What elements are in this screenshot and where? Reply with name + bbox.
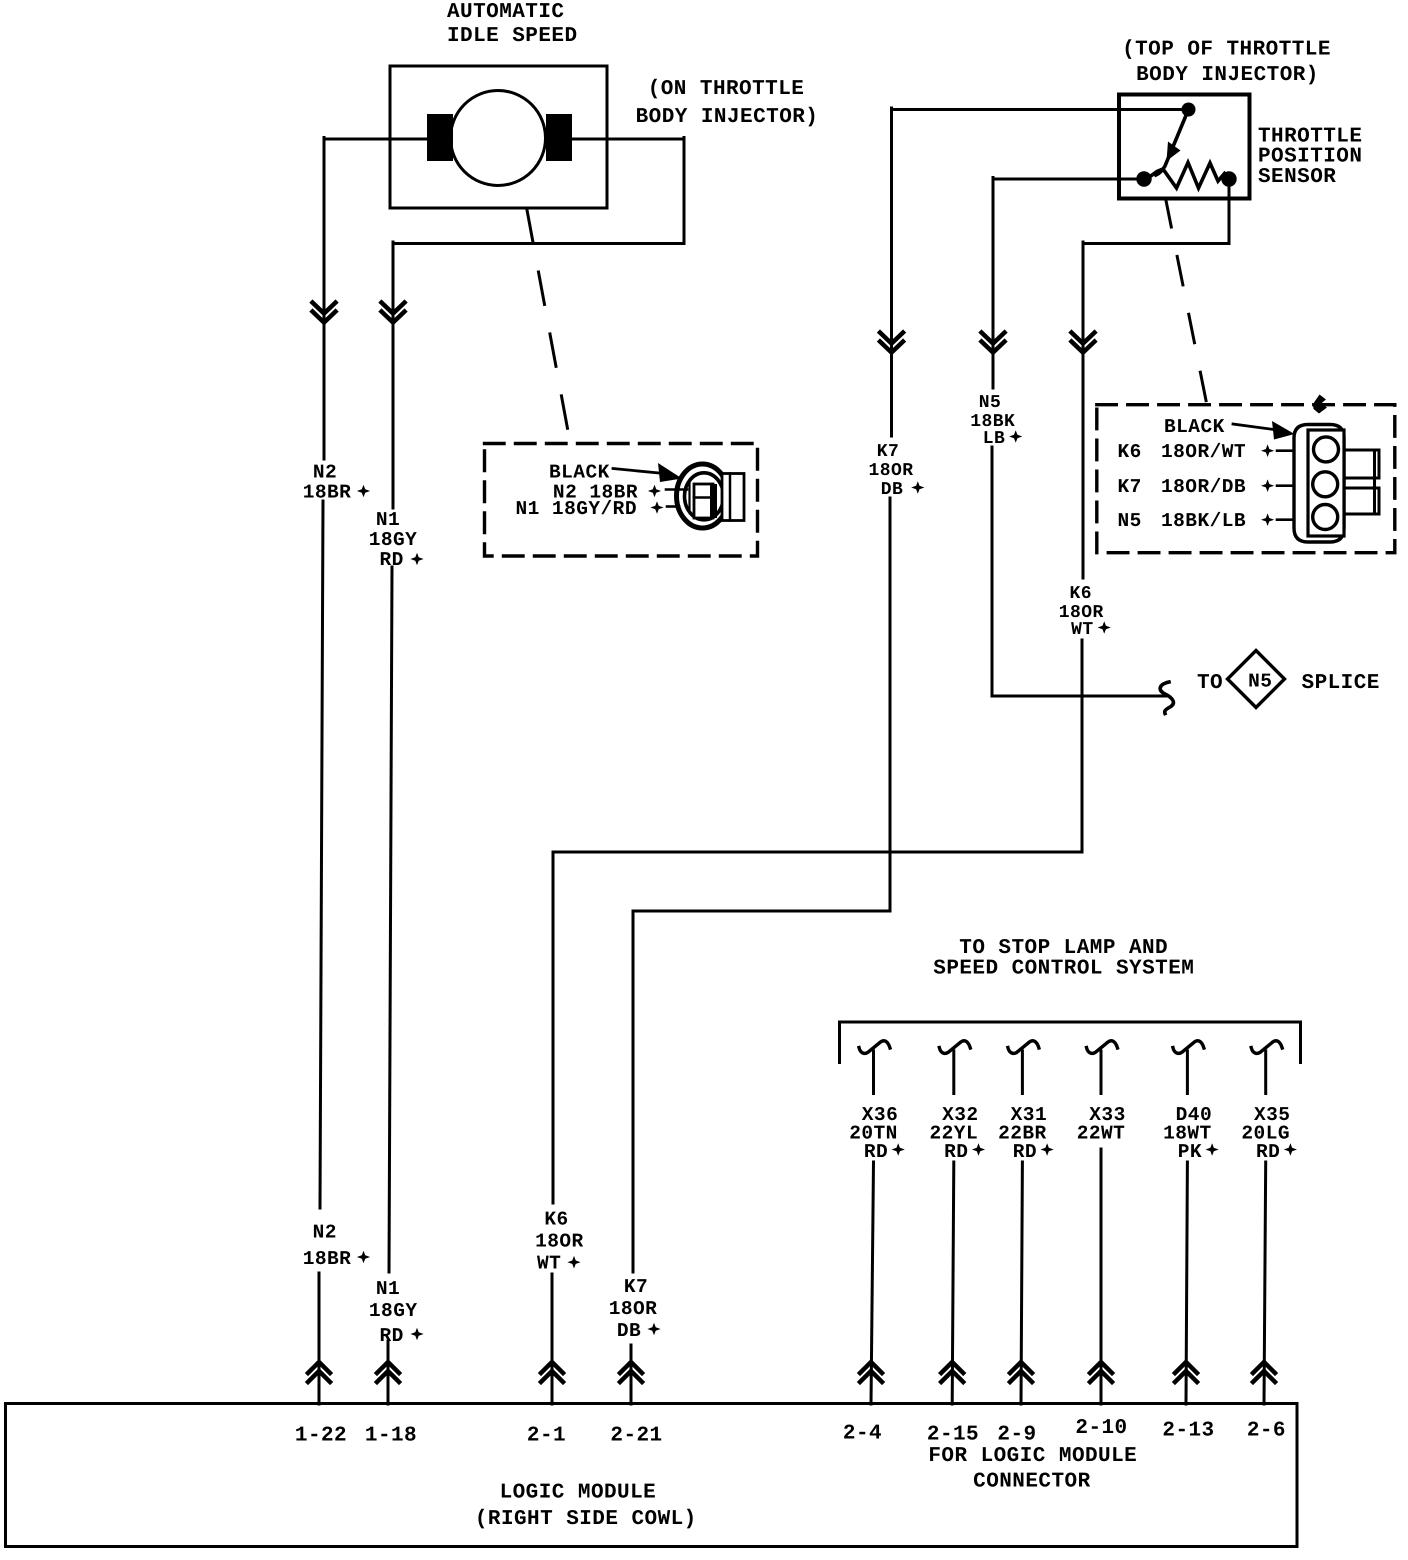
wire X36 hook (to stop lamp / speed control) (859, 1041, 890, 1054)
svg-text:K7: K7 (624, 1276, 648, 1298)
wire K6 vertical lower-mid (552, 852, 555, 1203)
svg-text:DB: DB (617, 1320, 641, 1342)
svg-text:IDLE SPEED: IDLE SPEED (447, 25, 578, 48)
svg-text:1-22: 1-22 (295, 1424, 347, 1447)
svg-text:18OR/DB: 18OR/DB (1161, 476, 1246, 498)
node N5 splice diamond (1228, 651, 1285, 708)
wire K7 vertical lower-mid (632, 911, 635, 1272)
connector chevron N2 (up) (308, 1362, 330, 1382)
wire N5 vertical upper (992, 178, 995, 389)
svg-text:18GY: 18GY (369, 529, 418, 551)
connector chevron N1 (down) (382, 303, 405, 323)
wire N5 vertical lower (991, 447, 994, 696)
connector chevron K7 (up) (620, 1362, 642, 1382)
svg-text:2-21: 2-21 (610, 1424, 662, 1447)
wire N2 vertical lower (318, 1273, 321, 1404)
AIS connector latch (722, 474, 744, 521)
splice diamond on K7 upper label (911, 481, 924, 494)
svg-text:AUTOMATIC: AUTOMATIC (447, 1, 564, 24)
stub wire N2 row to connector (666, 488, 687, 491)
splice diamond N5 row (1261, 513, 1274, 526)
wire X31 hook (to stop lamp / speed control) (1008, 1041, 1039, 1054)
svg-text:18OR/WT: 18OR/WT (1161, 441, 1246, 463)
wire D40 vertical upper (1186, 1051, 1189, 1094)
svg-text:18OR: 18OR (868, 461, 913, 481)
connector chevron K6 (up) (541, 1362, 563, 1382)
wire K6 vertical from TPS right terminal (1228, 184, 1231, 244)
svg-text:2-1: 2-1 (527, 1424, 566, 1447)
TPS connector detail dashed box (1097, 405, 1395, 553)
wire K7 horizontal to TPS top terminal (892, 108, 1185, 111)
throttle position sensor TPS box (1119, 95, 1250, 199)
wire X33 hook (to stop lamp / speed control) (1087, 1041, 1118, 1054)
stub wire K6 row (1277, 449, 1309, 452)
wire K7 vertical lower (630, 1345, 633, 1404)
wire N1 vertical middle (389, 567, 392, 1272)
TPS wiper arrowhead (1167, 142, 1181, 162)
svg-text:N1 18GY/RD: N1 18GY/RD (515, 498, 637, 520)
svg-text:2-13: 2-13 (1162, 1419, 1214, 1442)
bracket for stop lamp branch (840, 1022, 1301, 1063)
svg-text:SPLICE: SPLICE (1302, 672, 1380, 695)
svg-text:K6: K6 (544, 1208, 568, 1230)
AIS connector detail dashed box (485, 444, 758, 557)
AIS motor brush left (427, 114, 453, 161)
svg-text:N5: N5 (1248, 671, 1272, 693)
svg-text:RD: RD (379, 1325, 403, 1347)
svg-text:(TOP OF THROTTLE: (TOP OF THROTTLE (1122, 39, 1331, 62)
svg-text:RD: RD (1013, 1141, 1037, 1163)
wire N5 horizontal to TPS left terminal (993, 178, 1140, 181)
wire N2 vertical middle (320, 501, 323, 1208)
connector chevron X36 (up) (860, 1362, 882, 1382)
svg-text:DB: DB (881, 480, 904, 500)
svg-text:(ON THROTTLE: (ON THROTTLE (648, 78, 805, 101)
TPS resistor zigzag (1148, 163, 1229, 189)
svg-text:CONNECTOR: CONNECTOR (973, 1470, 1090, 1493)
wire X32 vertical upper (952, 1051, 955, 1094)
connector chevron D40 (up) (1175, 1362, 1197, 1382)
wire X33 vertical lower (1100, 1149, 1103, 1404)
wire K7 horizontal run (633, 910, 890, 913)
connector chevron N5 (down) (982, 333, 1005, 353)
svg-text:N5: N5 (979, 393, 1002, 413)
svg-text:2-15: 2-15 (927, 1423, 979, 1446)
splice diamond on N2 lower label (357, 1251, 370, 1264)
svg-text:SPEED CONTROL SYSTEM: SPEED CONTROL SYSTEM (933, 957, 1194, 980)
splice diamond on N1 upper label (410, 553, 423, 566)
AIS motor brush right (546, 114, 572, 161)
TPS connector latch (1344, 450, 1379, 478)
wire X36 vertical upper (872, 1051, 875, 1094)
svg-text:18OR: 18OR (609, 1298, 658, 1320)
wire X35 vertical lower (1264, 1162, 1266, 1404)
connector chevron X31 (up) (1010, 1362, 1032, 1382)
svg-text:LB: LB (983, 429, 1006, 449)
svg-text:N1: N1 (376, 1278, 400, 1300)
svg-text:FOR LOGIC MODULE: FOR LOGIC MODULE (928, 1445, 1137, 1468)
wire N2 horizontal from motor left brush (324, 138, 427, 141)
wire N1 horizontal from motor right brush (572, 138, 684, 141)
TPS potentiometer top terminal dot (1182, 103, 1196, 117)
splice diamond on N2 upper label (357, 485, 370, 498)
svg-text:RD: RD (864, 1141, 888, 1163)
svg-text:18OR: 18OR (535, 1231, 584, 1253)
connector chevron X35 (up) (1253, 1362, 1275, 1382)
svg-text:(RIGHT SIDE COWL): (RIGHT SIDE COWL) (475, 1508, 697, 1531)
svg-text:RD: RD (1256, 1141, 1280, 1163)
TPS potentiometer right terminal dot (1221, 171, 1236, 186)
splice diamond N2 row (648, 485, 661, 498)
splice diamond on K6 lower label (567, 1256, 580, 1269)
splice diamond on N5 label (1009, 430, 1022, 443)
svg-text:K6: K6 (1118, 441, 1142, 463)
wire N1 vertical lower (387, 1341, 390, 1404)
wire X32 vertical lower (952, 1162, 954, 1404)
wire D40 hook (to stop lamp / speed control) (1173, 1041, 1204, 1054)
svg-text:LOGIC MODULE: LOGIC MODULE (500, 1481, 657, 1504)
splice diamond K7 row (1261, 479, 1274, 492)
AIS connector (oval, rear view) (677, 464, 745, 528)
wire K6 vertical lower (551, 1274, 554, 1404)
svg-text:18BR: 18BR (303, 1248, 352, 1270)
svg-text:BODY INJECTOR): BODY INJECTOR) (1136, 64, 1319, 87)
wire K7 vertical upper (890, 108, 893, 436)
wire N1 horizontal run under motor (393, 242, 684, 245)
wire K6 vertical upper (1082, 242, 1085, 578)
svg-text:TO: TO (1197, 672, 1223, 695)
splice diamond on X35 label (1284, 1143, 1297, 1156)
wire X33 vertical upper (1100, 1051, 1103, 1094)
connector chevron N2 (down) (313, 303, 336, 323)
stub wire N5 row (1277, 518, 1309, 521)
splice diamond on K6 upper label (1098, 621, 1111, 634)
svg-text:N5: N5 (1118, 510, 1142, 532)
svg-text:1-18: 1-18 (365, 1424, 417, 1447)
svg-text:RD: RD (944, 1141, 968, 1163)
wire K6 horizontal under TPS (1083, 242, 1229, 245)
connector chevron X33 (up) (1090, 1362, 1112, 1382)
splice diamond on X31 label (1041, 1143, 1054, 1156)
TPS potentiometer left terminal dot (1136, 171, 1151, 186)
wire D40 vertical lower (1186, 1162, 1187, 1404)
svg-text:18BR: 18BR (303, 482, 352, 504)
logic module box (6, 1404, 1298, 1547)
wire N1 vertical upper (392, 242, 395, 508)
svg-text:BLACK: BLACK (549, 462, 610, 484)
svg-text:K6: K6 (1069, 584, 1092, 604)
svg-text:22WT: 22WT (1077, 1122, 1126, 1144)
svg-text:BLACK: BLACK (1164, 416, 1225, 438)
wire X31 vertical lower (1021, 1162, 1022, 1404)
wire X35 hook (to stop lamp / speed control) (1251, 1041, 1282, 1054)
stub wire N1 row to connector (667, 505, 679, 508)
svg-text:WT: WT (537, 1253, 561, 1275)
wire X35 vertical upper (1264, 1051, 1267, 1094)
dashed leader from TPS to connector detail (1166, 199, 1208, 407)
splice diamond on X32 label (972, 1143, 985, 1156)
svg-text:2-9: 2-9 (997, 1423, 1036, 1446)
TPS connector body (3-way, rear view) (1294, 425, 1379, 543)
wire X32 hook (to stop lamp / speed control) (939, 1041, 970, 1054)
splice diamond K6 row (1261, 444, 1274, 457)
connector chevron X32 (up) (941, 1362, 963, 1382)
wire K6 horizontal run (553, 851, 1082, 854)
wire N5 horizontal to splice (992, 695, 1167, 698)
splice diamond on X36 label (892, 1143, 905, 1156)
svg-text:PK: PK (1178, 1141, 1202, 1163)
AIS motor M1 box (390, 66, 607, 208)
splice diamond on N1 lower label (410, 1328, 423, 1341)
wire X36 vertical lower (871, 1162, 874, 1404)
wire break squiggle at N5 splice (1160, 682, 1173, 714)
svg-text:WT: WT (1071, 620, 1094, 640)
connector chevron N1 (up) (377, 1362, 399, 1382)
AIS motor M1 armature circle (451, 91, 546, 186)
svg-text:2-4: 2-4 (843, 1422, 882, 1445)
wire N2 vertical upper (323, 138, 326, 460)
dashed leader from AIS motor to connector detail (527, 210, 570, 442)
wire N1 vertical drop right of motor (683, 138, 686, 244)
splice diamond on D40 label (1206, 1143, 1219, 1156)
svg-text:K7: K7 (877, 442, 900, 462)
splice diamond N1 row (650, 501, 663, 514)
splice diamond on K7 lower label (647, 1323, 660, 1336)
svg-text:SENSOR: SENSOR (1258, 166, 1336, 189)
TPS wiper arm (1156, 113, 1187, 175)
svg-text:2-10: 2-10 (1075, 1417, 1127, 1440)
svg-text:N1: N1 (376, 509, 400, 531)
stub wire K7 row (1277, 484, 1309, 487)
leader arrow from BLACK to connector (613, 469, 664, 474)
connector chevron K6 (down) (1072, 333, 1095, 353)
svg-text:N2: N2 (313, 462, 337, 484)
wire K7 vertical middle (889, 498, 892, 911)
svg-text:2-6: 2-6 (1247, 1419, 1286, 1442)
svg-text:BODY INJECTOR): BODY INJECTOR) (636, 106, 819, 129)
svg-text:N2: N2 (313, 1222, 337, 1244)
index arrow at top of TPS connector (1313, 395, 1327, 414)
svg-text:K7: K7 (1118, 476, 1142, 498)
wire K6 vertical middle (1081, 640, 1084, 852)
leader arrow from BLACK to TPS connector (1233, 424, 1281, 431)
connector chevron K7 (down) (880, 333, 903, 353)
svg-text:18GY: 18GY (369, 1300, 418, 1322)
svg-text:18BK/LB: 18BK/LB (1161, 510, 1246, 532)
wire X31 vertical upper (1021, 1051, 1024, 1094)
